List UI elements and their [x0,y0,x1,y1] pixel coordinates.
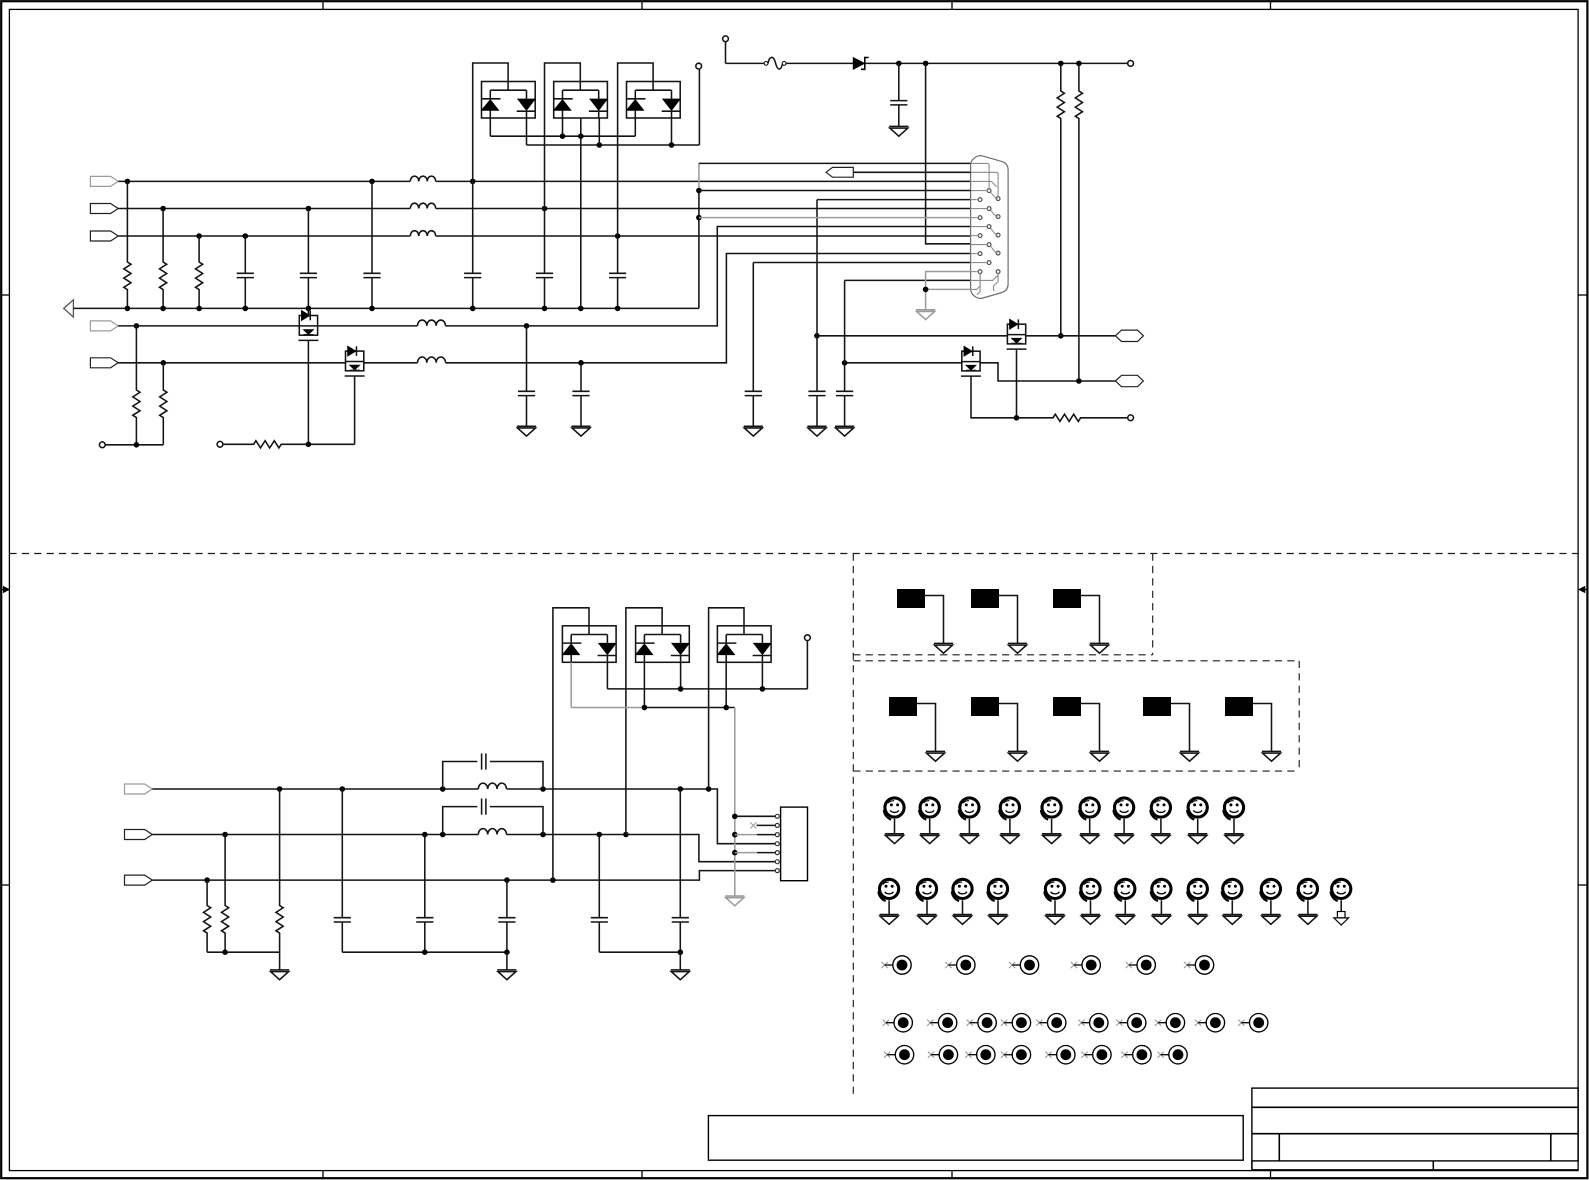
wire CN2 pin3 [735,834,775,836]
logo row 2 mounting symbols [879,879,1318,924]
wire DB15 ground net grey [923,272,971,310]
wire line G upper right [436,206,971,212]
TVS array U3 [627,82,681,119]
resistor R4 pullup SCL [1057,63,1064,335]
fuse F1 [764,57,786,69]
wire line G lower right [507,832,776,862]
wire line R upper [118,179,410,185]
wire fuse to diode [786,62,853,64]
wire U3 hook [618,63,654,236]
flag DDC SDA input [90,358,118,368]
flag VGA R input [90,176,118,186]
terminal TVS lower open circle [805,635,811,641]
wire SDA out [980,363,1115,384]
border centre arrow right [1578,586,1587,593]
ground under C9 [571,426,590,436]
wire Q1 gate [307,341,309,445]
wire DDC A mid [318,325,418,327]
capacitor C20 bypass R [443,753,543,789]
terminal TVS common open circle [696,63,702,69]
wire shield bus [73,306,699,312]
wire +5V to connector pin [926,63,971,243]
transistor Q4 [961,346,981,376]
capacitor C3 [363,181,380,308]
connector DB15 inner traces [971,163,999,294]
flag SDA output [1115,375,1143,386]
resistor R2 [160,209,167,309]
wire Q2 gate [354,376,356,444]
wire DDC B mid [364,362,418,364]
ferrite bead FB1 [410,176,435,181]
logo row 1 mounting symbols [884,798,1244,844]
terminal J2 open circle [1128,61,1134,67]
wire DDC B right [446,254,971,366]
diode D1 TVS [853,58,868,70]
wire gate line [306,442,355,448]
no-connect X pin2 [750,822,775,828]
wire shield bus riser [696,163,970,308]
section divider dashed horizontal [9,553,1578,555]
wire DB15 row 190 [699,190,971,192]
wire DB15 row 217 grey [699,217,971,219]
flag VGA G input [90,204,118,214]
transistor Q2 [345,346,365,376]
ground under C10 [807,426,826,436]
capacitor C6 [609,236,626,308]
flag VGA B2 input [125,875,153,885]
wire CN2 pin1 [735,815,775,817]
wire top rail [865,61,1128,67]
wire line B upper right [436,233,971,239]
capacitor C2 [300,209,317,309]
test point row 1 [882,956,1214,974]
ground under C7 [889,126,908,136]
wire CN2 pin5 [735,852,775,854]
dashed group box lower-right [853,661,1299,771]
flag VGA B input [90,231,118,241]
connector CN2 box [781,807,808,881]
section divider dashed vertical [852,554,854,1097]
wire line B upper [118,233,410,239]
wire term bus lower [207,949,280,970]
wire DDC B left [118,360,345,366]
ferrite bead FB2 [410,203,435,208]
wire bus D drop grey [732,708,738,897]
wire U6 hook [709,608,744,789]
wire U1 hook [473,63,508,181]
TVS array U6 [717,626,771,663]
wire SCL out [1026,335,1116,337]
resistor R11 [222,835,229,953]
transistor Q1 [299,311,319,341]
wire DB15 row 172 flag [853,171,970,173]
capacitor C23 [416,835,433,953]
ferrite bead FB6 [478,783,506,789]
resistor R12 [276,789,283,952]
wire line R lower right [507,786,776,844]
capacitor C24 [498,880,515,952]
terminal J5 open circle [1128,415,1134,421]
connector CN2 pins [775,814,779,872]
wire DDC A left [118,323,299,329]
jumper pads group 1 [897,589,1109,653]
notes box [708,1116,1243,1161]
flag VGA R2 input [125,784,153,794]
terminal J1 open circle [723,36,765,64]
wire cap bus 1 [342,949,509,970]
connector DB15 outline [971,156,1009,299]
wire U2 hook [545,63,581,209]
TVS array U1 [482,82,536,119]
resistor R6 DDC A term [133,326,140,445]
capacitor C8 [518,326,535,426]
terminal J4 open circle [217,441,223,447]
resistor R7 DDC B term [160,363,167,445]
wire SDA net [842,360,962,366]
logo row 2 last with signal ground [1331,879,1351,925]
capacitor C22 [334,789,351,952]
capacitor C9 [572,363,589,427]
wire line R lower left [152,786,478,792]
bus arrow left [64,300,74,317]
ground under C11 [835,426,854,436]
ferrite bead FB7 [478,829,506,835]
ground term bus [270,970,289,980]
wire DDC A right [446,227,971,329]
capacitor C21 bypass G [443,799,543,835]
ground cap bus 1 [497,970,516,980]
wire cap bus 2 [599,949,683,970]
wire TVS bus A stub to shield [580,118,582,308]
ground cap bus 2 [671,970,690,980]
wire TVS bus C [607,641,807,692]
jumper pads group 2 [889,697,1281,761]
wire U4 hook [553,608,589,880]
resistor R1 [124,181,131,308]
resistor R5 pullup SDA [1075,63,1082,381]
resistor R10 [204,880,211,952]
wire TVS bus A [490,118,635,139]
TVS array U5 [636,626,690,663]
wire line G upper [118,206,410,212]
capacitor C11 [836,391,853,426]
TVS array U4 [562,626,616,663]
capacitor C5 [536,209,553,309]
dashed group box upper-right [853,554,1152,655]
capacitor C4 [464,181,481,308]
wire line B lower [152,871,775,883]
capacitor C10 [808,391,825,426]
capacitor C25 [591,835,608,953]
resistor R9 gate [1017,414,1128,421]
ground bus D grey [725,896,744,906]
flag SCL output [1115,330,1143,341]
border centre arrow left [1,586,9,593]
resistor R3 [196,236,203,308]
wire SCL riser [817,200,971,392]
wire DDC term bus [105,442,163,448]
flag hsync left [826,167,853,177]
flag DDC SCL input [90,321,118,331]
ferrite bead FB3 [410,231,435,236]
resistor R8 gate pulldown [223,441,309,448]
wire U5 hook [626,608,662,835]
wire Q1 top to bus [307,308,309,315]
flag VGA G2 input [125,830,153,840]
wire TVS bus B [527,69,700,148]
ground under DB15 grey [916,310,935,320]
test point row 2 [883,1014,1268,1032]
ground under C12 [744,426,763,436]
connector DB15 pins [978,189,1000,274]
capacitor C7 [890,63,907,126]
wire SCL net [814,333,1063,339]
title block [1252,1088,1578,1170]
wire line R upper right [436,179,971,185]
terminal J3 open circle [99,442,105,448]
wire SDA riser [845,280,971,391]
capacitor C26 [672,789,689,952]
wire Q3 Q4 gates [971,350,1019,421]
capacitor C12 [745,263,971,427]
test point row 3 [884,1046,1187,1064]
transistor Q3 [1007,319,1027,349]
ferrite bead FB5 [418,357,446,363]
wire line G lower left [152,832,478,838]
TVS array U2 [554,82,608,119]
capacitor C1 [237,236,254,308]
ferrite bead FB4 [418,320,446,326]
wire TVS bus D grey [571,662,735,710]
ground under C8 [517,426,536,436]
